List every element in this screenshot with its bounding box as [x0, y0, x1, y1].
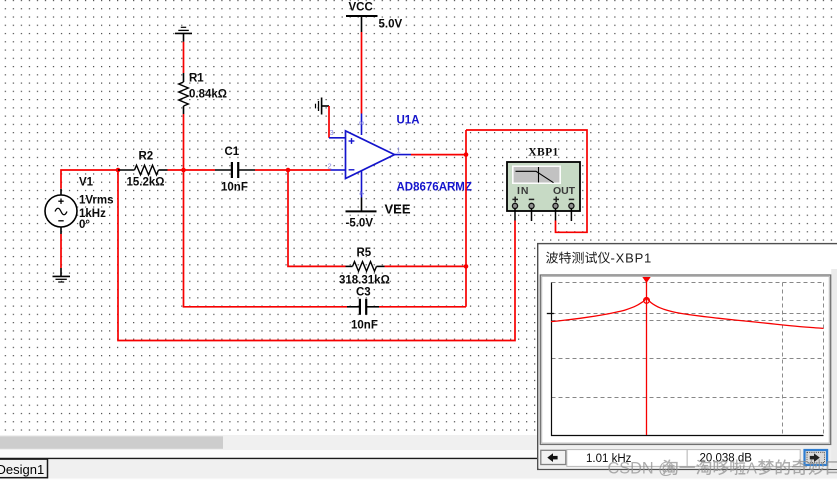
cursor	[642, 277, 650, 435]
node junction inverting net	[286, 168, 291, 173]
terminal OUT+	[553, 203, 558, 208]
svg-text:R2: R2	[139, 150, 154, 162]
ground (top, above R1)	[175, 27, 192, 42]
right scroll button (focused)	[805, 450, 828, 465]
svg-text:Design1: Design1	[0, 462, 44, 477]
svg-text:-XBP1: -XBP1	[611, 251, 653, 266]
svg-text:C3: C3	[356, 286, 371, 298]
watermark CSDN	[608, 459, 837, 477]
svg-text:AD8676ARMZ: AD8676ARMZ	[397, 182, 472, 194]
terminal OUT-	[569, 203, 574, 208]
response trace	[551, 298, 824, 329]
svg-text:R5: R5	[357, 247, 372, 259]
svg-text:5.0V: 5.0V	[379, 19, 403, 31]
plot panel	[540, 275, 830, 445]
resistor R2 15.2k	[118, 150, 168, 188]
svg-text:8: 8	[357, 121, 366, 125]
capacitor C1 10nF	[215, 146, 255, 194]
svg-text:U1A: U1A	[397, 115, 420, 127]
power VEE	[346, 198, 411, 230]
status strip	[0, 450, 837, 458]
node A junction	[181, 168, 186, 173]
wire ground to op-amp pin 3	[328, 106, 330, 138]
svg-text:4: 4	[357, 191, 366, 195]
wire node A down to C3	[184, 170, 348, 307]
svg-text:A: A	[747, 461, 758, 478]
wire VCC to op-amp pin 8	[361, 32, 363, 114]
svg-text:1Vrms: 1Vrms	[79, 194, 114, 206]
svg-text:318.31kΩ: 318.31kΩ	[339, 275, 390, 287]
wire V1 to R2	[61, 170, 118, 189]
wire R5 to output net	[385, 265, 467, 267]
node junction at R2 input	[116, 168, 121, 173]
svg-text:-5.0V: -5.0V	[346, 217, 374, 229]
Bode plotter window XBP1	[538, 244, 837, 470]
ground (sideways, at op-amp non-inverting input)	[316, 98, 330, 115]
wire junction to Bode IN+ (bottom run)	[118, 170, 515, 341]
window title	[546, 251, 652, 266]
wire V1 to ground	[60, 234, 62, 268]
svg-text:VEE: VEE	[385, 202, 411, 217]
node junction output/R5	[464, 264, 469, 269]
capacitor C3 10nF	[347, 286, 379, 331]
wire C1 to op-amp inverting input	[255, 169, 331, 171]
svg-text:10nF: 10nF	[221, 181, 248, 193]
svg-text:0°: 0°	[79, 219, 90, 231]
svg-text:2: 2	[328, 162, 332, 171]
instrument XBP1 Bode plotter icon	[507, 147, 580, 221]
svg-text:3: 3	[330, 128, 334, 137]
frequency readout field	[567, 450, 687, 467]
resistor R5 318.31k	[339, 247, 390, 287]
svg-text:15.2kΩ: 15.2kΩ	[127, 176, 165, 188]
wire C3 to output net	[379, 306, 466, 308]
terminal IN+	[512, 203, 517, 208]
tab bar	[0, 458, 837, 480]
svg-text:10nF: 10nF	[351, 319, 378, 331]
ground (below V1)	[53, 268, 71, 282]
svg-text:IN: IN	[517, 185, 529, 197]
resistor R1 0.84k	[179, 72, 227, 114]
svg-text:XBP1: XBP1	[528, 147, 558, 159]
wire R1 to node A	[183, 114, 185, 170]
svg-text:R1: R1	[189, 72, 204, 84]
svg-text:CSDN @: CSDN @	[608, 460, 675, 478]
op-amp U1A AD8676ARMZ	[328, 114, 472, 198]
svg-text:C1: C1	[225, 146, 240, 158]
wire inverting node down to R5	[288, 170, 346, 266]
node junction at output	[464, 152, 469, 157]
svg-text:OUT: OUT	[553, 185, 576, 197]
graticule	[547, 283, 824, 436]
terminal IN-	[529, 203, 534, 208]
svg-text:0.84kΩ: 0.84kΩ	[189, 88, 227, 100]
wire output to Bode OUT+	[466, 130, 587, 232]
power VCC	[346, 1, 402, 32]
svg-text:VCC: VCC	[349, 1, 373, 13]
left scroll button	[541, 450, 566, 464]
svg-text:1: 1	[397, 145, 401, 154]
wire ground to R1	[183, 42, 185, 73]
horizontal scrollbar	[0, 435, 837, 450]
source V1 1Vrms 1kHz	[45, 177, 114, 235]
wire output vertical net	[465, 130, 467, 307]
gain readout field	[687, 450, 800, 467]
wire R2 to C1	[168, 169, 216, 171]
svg-text:V1: V1	[79, 177, 94, 189]
wire op-amp output	[411, 154, 466, 156]
